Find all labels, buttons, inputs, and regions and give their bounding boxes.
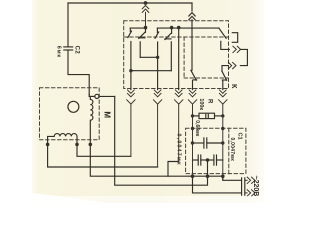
node bus dot center <box>206 174 210 178</box>
node motor dot 1 <box>46 143 50 147</box>
node box top left dot <box>191 127 194 130</box>
capacitor C2 <box>64 47 73 50</box>
wire P2 to K switch <box>222 66 228 72</box>
node S1 dot <box>144 26 148 30</box>
node R right dot <box>221 114 224 117</box>
svg-text:6мк: 6мк <box>55 46 61 58</box>
contact K1 in inner box <box>191 70 197 89</box>
wire terminal link <box>89 94 95 96</box>
motor terminal circle <box>95 94 99 98</box>
svg-text:100к: 100к <box>198 98 204 110</box>
resistor R <box>193 113 223 118</box>
svg-text:0,68мк: 0,68мк <box>194 120 200 136</box>
wire motor terminal down and across <box>115 96 208 185</box>
contact S1.1 top bar <box>130 27 145 29</box>
wire top bus <box>68 2 192 4</box>
scanned paper area <box>32 0 264 203</box>
dashed inner box bottom edge <box>184 77 228 79</box>
node cross link dot <box>156 56 159 59</box>
dashed enclosure motor <box>40 88 100 140</box>
connector pair column 131 <box>127 90 135 156</box>
svg-text:R: R <box>206 99 212 104</box>
svg-text:К: К <box>230 84 239 89</box>
wire jack to plug right <box>221 41 230 49</box>
plug arrow top <box>245 177 255 183</box>
node S2a dot <box>170 26 174 30</box>
dashed enclosure capacitors <box>186 128 246 173</box>
scan fade bottom <box>32 196 264 203</box>
wire dot1 to col158 <box>48 144 158 167</box>
node motor dot 2 <box>75 143 79 147</box>
connector plug arrow up X1 <box>142 5 149 26</box>
motor M circle <box>68 101 79 112</box>
node twin center dot <box>206 158 210 162</box>
svg-text:~220В: ~220В <box>252 176 259 197</box>
mains plug bars <box>242 178 245 195</box>
svg-text:М: М <box>103 111 112 118</box>
connector pair column 179 <box>175 90 183 162</box>
node box top right dot <box>221 127 224 130</box>
dashed divider C1 box <box>228 128 230 173</box>
jack frame bracket <box>232 33 237 43</box>
plug arrow bottom <box>245 190 255 196</box>
svg-text:С1: С1 <box>236 133 242 140</box>
dashed enclosure upper (switch unit) <box>124 21 229 89</box>
connector pair column 222 <box>219 90 227 180</box>
connector plug arrow right P2 <box>228 62 236 68</box>
wire col158 down <box>157 57 159 89</box>
svg-text:C2: C2 <box>73 46 79 55</box>
wire col179 down <box>178 28 180 90</box>
wire cross link lower <box>140 56 157 58</box>
connector pair column 158 <box>153 90 161 167</box>
svg-text:0,0047мк: 0,0047мк <box>175 134 181 166</box>
node R left dot <box>191 114 194 117</box>
svg-text:0,0047мк: 0,0047мк <box>229 138 235 162</box>
connector plug arrow right P1 <box>233 46 241 52</box>
wire to plug bottom <box>193 176 241 193</box>
node col131 dot <box>129 69 132 72</box>
wire cross link upper <box>131 70 171 72</box>
wire C2 to motor box <box>68 50 89 94</box>
contact S2.1 left blade <box>155 28 159 57</box>
contact S1.2 right blade with tick <box>139 28 146 57</box>
wire center tap down <box>207 160 209 176</box>
node bus dot left <box>191 174 195 178</box>
node bus dot right <box>221 174 225 178</box>
wire dot2 to col131 <box>77 144 131 156</box>
motor field winding vertical <box>90 96 93 144</box>
connector plug arrow up X2 <box>189 3 195 70</box>
node cap mid right dot <box>221 141 224 144</box>
capacitor twin left <box>193 155 208 165</box>
wire col179 jog <box>168 162 179 177</box>
wire bus bottom from dot3 <box>90 144 223 176</box>
switch K contact <box>222 71 227 89</box>
wire to plug top <box>223 176 241 180</box>
connector pair column 192 <box>188 90 196 176</box>
node motor dot 3 <box>89 143 93 147</box>
capacitor mid <box>193 138 223 148</box>
motor tacho coil horizontal <box>48 134 77 144</box>
dashed mid line of switch unit <box>124 36 229 38</box>
scan fade bottom-left corner <box>32 193 105 203</box>
contact jack blade <box>219 28 226 38</box>
contact S2 top bar <box>157 27 178 29</box>
contact S1.1 left blade <box>128 28 132 90</box>
wire left riser to C2 <box>67 3 69 47</box>
wire loop right <box>240 49 247 65</box>
wire terminal to right <box>99 95 115 97</box>
wire jack feed <box>179 27 219 29</box>
contact S2.2 right blade with tick <box>165 28 172 71</box>
capacitor twin right <box>208 155 223 165</box>
dashed inner box left edge <box>183 37 185 78</box>
node cap mid left dot <box>191 141 194 144</box>
node A top junction <box>144 1 148 5</box>
node S2b dot <box>177 26 181 30</box>
